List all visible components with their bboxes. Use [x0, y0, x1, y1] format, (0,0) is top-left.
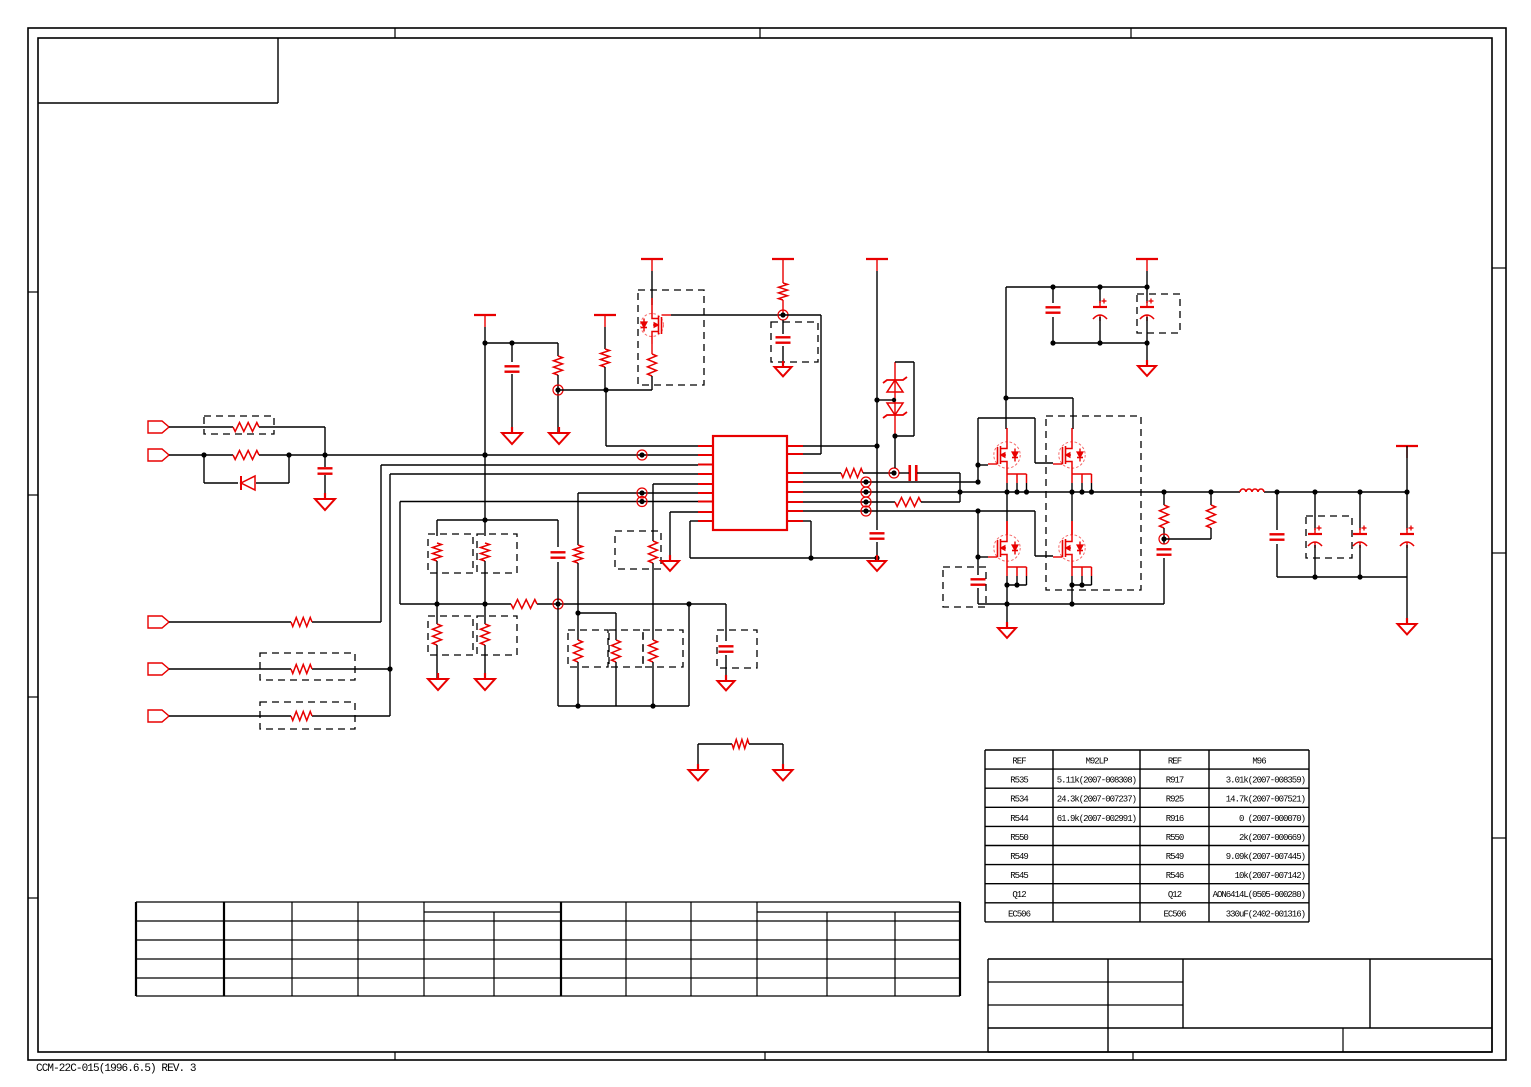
svg-text:2k(2007-000669): 2k(2007-000669)	[1239, 833, 1305, 843]
svg-text:M96: M96	[1252, 757, 1266, 767]
svg-text:5.11k(2007-008308): 5.11k(2007-008308)	[1057, 776, 1136, 786]
svg-text:Q12: Q12	[1168, 890, 1182, 900]
svg-text:R546: R546	[1166, 871, 1184, 881]
svg-text:AON6414L(0505-000280): AON6414L(0505-000280)	[1213, 890, 1305, 900]
svg-text:R535: R535	[1010, 776, 1028, 786]
svg-text:EC506: EC506	[1008, 909, 1031, 919]
svg-text:R550: R550	[1010, 833, 1028, 843]
svg-text:0 (2007-000070): 0 (2007-000070)	[1239, 814, 1305, 824]
svg-text:R544: R544	[1010, 814, 1028, 824]
svg-text:R550: R550	[1166, 833, 1184, 843]
svg-text:R534: R534	[1010, 795, 1028, 805]
svg-text:CCM-22C-015(1996.6.5) REV. 3: CCM-22C-015(1996.6.5) REV. 3	[36, 1063, 196, 1075]
svg-text:R545: R545	[1010, 871, 1028, 881]
svg-text:10k(2007-007142): 10k(2007-007142)	[1235, 871, 1305, 881]
svg-text:24.3k(2007-007237): 24.3k(2007-007237)	[1057, 795, 1136, 805]
svg-text:REF: REF	[1168, 757, 1182, 767]
svg-text:9.09k(2007-007445): 9.09k(2007-007445)	[1226, 852, 1305, 862]
svg-text:EC506: EC506	[1163, 909, 1186, 919]
svg-text:14.7k(2007-007521): 14.7k(2007-007521)	[1226, 795, 1305, 805]
svg-text:R549: R549	[1166, 852, 1184, 862]
svg-text:R917: R917	[1166, 776, 1184, 786]
svg-text:3.01k(2007-008359): 3.01k(2007-008359)	[1226, 776, 1305, 786]
svg-text:REF: REF	[1012, 757, 1026, 767]
svg-text:R916: R916	[1166, 814, 1184, 824]
svg-text:M92LP: M92LP	[1085, 757, 1108, 767]
svg-text:R549: R549	[1010, 852, 1028, 862]
svg-text:Q12: Q12	[1012, 890, 1026, 900]
svg-text:330uF(2402-001316): 330uF(2402-001316)	[1226, 909, 1305, 919]
svg-text:R925: R925	[1166, 795, 1184, 805]
svg-text:61.9k(2007-002991): 61.9k(2007-002991)	[1057, 814, 1136, 824]
